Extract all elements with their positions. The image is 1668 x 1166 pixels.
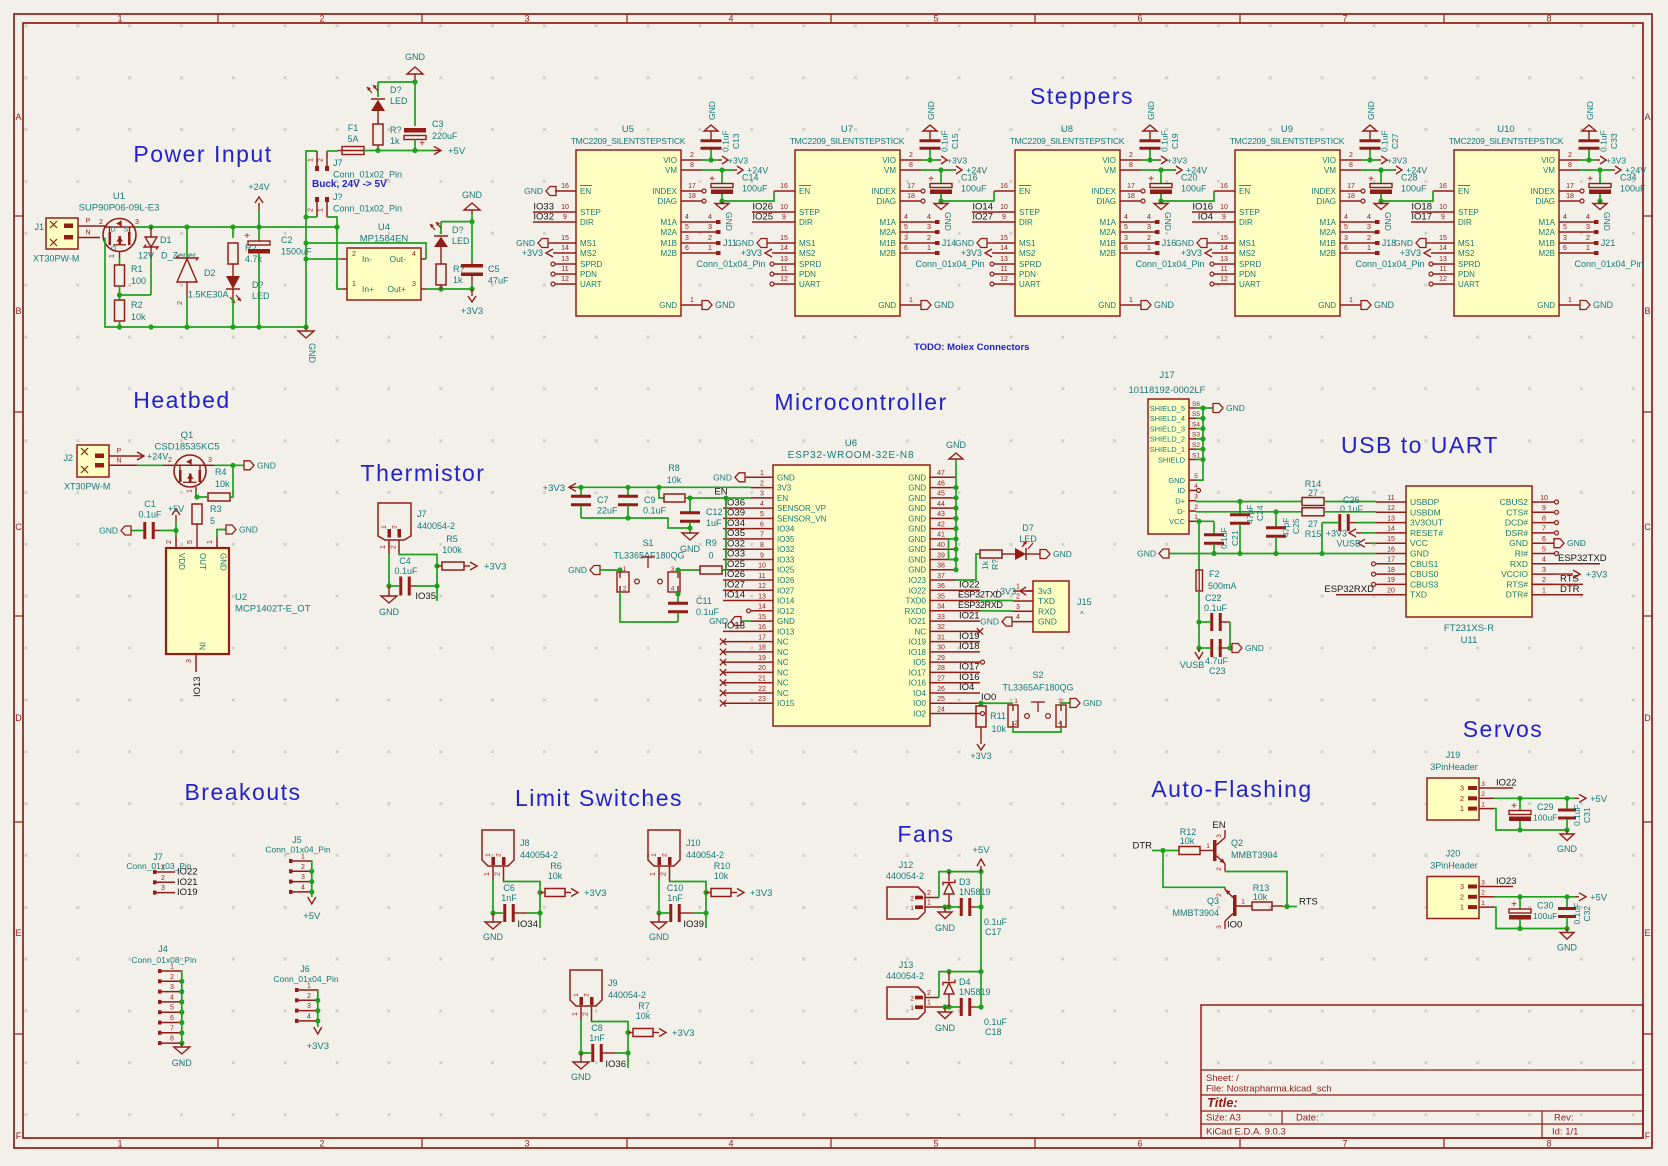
svg-text:F2: F2 [1209,569,1220,579]
svg-text:3: 3 [904,235,908,242]
svg-text:J19: J19 [1446,750,1461,760]
svg-text:P: P [117,448,122,455]
svg-text:12: 12 [758,583,766,590]
svg-text:2: 2 [584,993,591,997]
pin U10 SPRD [1433,263,1454,265]
svg-text:UART: UART [1239,280,1261,289]
svg-text:2: 2 [301,864,305,871]
svg-text:R7: R7 [638,1001,650,1011]
pin U6-32 NC [930,630,980,632]
pin U7 MS2 +3V3 [774,252,795,254]
svg-text:S2: S2 [1032,670,1043,680]
svg-text:A: A [1644,112,1650,122]
svg-text:+3V3: +3V3 [728,156,748,166]
svg-text:3: 3 [301,874,305,881]
svg-text:B: B [1644,306,1650,316]
svg-text:STEP: STEP [1239,208,1260,217]
svg-text:F1: F1 [348,123,359,133]
svg-text:6: 6 [1137,1139,1142,1149]
pin U5 MS1 GND flag [555,242,576,244]
svg-text:9: 9 [782,214,786,221]
svg-text:5: 5 [1194,473,1198,480]
svg-text:28: 28 [937,665,945,672]
svg-text:DIAG: DIAG [876,197,896,206]
ground symbol J9 [580,1053,582,1062]
svg-text:2: 2 [1216,867,1223,871]
svg-text:R10: R10 [714,861,731,871]
wires U6 GND bus right [930,476,956,478]
svg-text:0.1uF: 0.1uF [721,130,731,152]
svg-text:2: 2 [909,152,913,159]
svg-text:6: 6 [1563,245,1567,252]
svg-text:1: 1 [117,14,122,24]
wire J8 pin2 to net [503,866,505,881]
svg-text:EN: EN [799,187,810,196]
svg-text:STEP: STEP [1019,208,1040,217]
svg-text:+3V3: +3V3 [741,248,762,258]
svg-text:+3V3: +3V3 [522,248,543,258]
svg-text:3: 3 [1367,222,1371,231]
svg-text:Id: 1/1: Id: 1/1 [1552,1127,1578,1138]
svg-text:1: 1 [109,254,116,258]
svg-text:GND: GND [462,190,483,200]
svg-text:SHIELD_1: SHIELD_1 [1150,445,1185,454]
svg-text:M1B: M1B [1100,239,1116,248]
svg-text:14: 14 [1000,245,1008,252]
svg-text:1: 1 [927,1000,931,1007]
wire EN U9 from previous cap gnd [1161,191,1214,201]
svg-text:8: 8 [1129,162,1133,169]
svg-text:1: 1 [927,243,931,252]
connector J12 440054-2 fan [887,887,925,919]
svg-text:440054-2: 440054-2 [886,971,924,981]
svg-text:8: 8 [1546,1139,1551,1149]
svg-text:U9: U9 [1281,124,1293,135]
capacitor C12 1uF [689,498,691,512]
svg-text:M1B: M1B [1539,239,1555,248]
svg-text:GND: GND [1137,549,1156,559]
pin J2-1 P to +24V [109,455,137,457]
svg-text:R11: R11 [990,711,1006,721]
svg-text:A: A [15,112,21,122]
svg-text:4: 4 [307,1013,311,1020]
svg-text:33: 33 [937,614,945,621]
svg-text:U7: U7 [841,124,853,135]
svg-text:10: 10 [1540,495,1548,502]
svg-text:1: 1 [1367,243,1371,252]
power symbol VUSB down [1198,648,1200,652]
pin U10 UART [1433,283,1454,285]
wire shield bus to GND [1196,407,1213,409]
svg-text:17: 17 [907,183,915,190]
svg-text:SHIELD_2: SHIELD_2 [1150,435,1185,444]
wire +5V rail [364,150,434,152]
svg-text:1: 1 [910,1005,914,1012]
svg-text:10: 10 [1220,204,1228,211]
svg-text:4: 4 [1542,557,1546,564]
svg-text:100uF: 100uF [1401,184,1427,194]
svg-text:440054-2: 440054-2 [686,850,724,860]
svg-text:IO0: IO0 [913,699,926,708]
svg-text:Servos: Servos [1463,716,1544,742]
svg-text:TMC2209_SILENTSTEPSTICK: TMC2209_SILENTSTEPSTICK [790,136,905,146]
pin U7 INDEX [900,190,921,192]
svg-text:GND: GND [908,514,926,523]
pin U10 INDEX [1559,190,1580,192]
svg-text:1: 1 [760,470,764,477]
pin U6-3 EN label [751,497,773,499]
svg-text:3: 3 [1147,222,1151,231]
svg-text:SENSOR_VN: SENSOR_VN [777,514,827,523]
svg-text:IO32: IO32 [533,212,554,223]
ground symbol GND bottom [303,324,308,329]
svg-text:6: 6 [1124,245,1128,252]
pin U9 STEP label IO16 [1192,211,1235,213]
svg-text:13: 13 [1439,256,1447,263]
svg-text:C14: C14 [742,173,759,183]
svg-text:M1A: M1A [1100,218,1117,227]
svg-text:Microcontroller: Microcontroller [774,389,947,415]
svg-text:IO36: IO36 [605,1059,626,1070]
pin U10 EN [1433,190,1454,192]
diode D1 12V D_Zener [150,227,152,237]
svg-text:4: 4 [1016,614,1020,621]
pin U10 PDN [1433,273,1454,275]
svg-text:TXD: TXD [1038,596,1055,606]
svg-text:+5V: +5V [1590,892,1608,903]
capacitor C14 100uF [721,170,723,183]
svg-text:C28: C28 [1401,173,1418,183]
capacitor C2 1500uF [258,227,260,242]
pin U10 MS2 +3V3 [1433,252,1454,254]
pin U8 EN [994,190,1015,192]
svg-text:ESP32RXD: ESP32RXD [958,600,1003,610]
svg-text:C12: C12 [706,507,723,517]
svg-text:TMC2209_SILENTSTEPSTICK: TMC2209_SILENTSTEPSTICK [571,136,686,146]
svg-text:8: 8 [1568,162,1572,169]
svg-text:GND: GND [724,212,734,231]
svg-text:41: 41 [937,532,945,539]
svg-text:C20: C20 [1181,173,1198,183]
svg-text:100uF: 100uF [961,184,987,194]
svg-text:C10: C10 [667,883,684,893]
pin J19-3 label IO22 [1494,787,1513,789]
wire R1 bottom to D1 [120,294,152,296]
svg-text:+5V: +5V [1590,794,1608,805]
svg-text:2: 2 [1349,152,1353,159]
svg-text:IO4: IO4 [1198,212,1213,223]
svg-text:R8: R8 [668,463,680,473]
svg-text:IO13: IO13 [777,627,795,636]
svg-text:1uF: 1uF [706,518,722,528]
svg-text:GND: GND [1154,300,1175,310]
svg-text:47: 47 [937,470,945,477]
svg-text:3PinHeader: 3PinHeader [1430,762,1478,772]
svg-text:10k: 10k [215,479,230,489]
svg-text:IO34: IO34 [777,525,795,534]
pin U11-4 RXD ESP32TXD [1532,563,1600,565]
svg-text:0.1uF: 0.1uF [1340,504,1364,514]
svg-text:1: 1 [352,281,356,288]
svg-text:E: E [1644,928,1650,938]
svg-text:3: 3 [1481,879,1485,886]
svg-text:IO39: IO39 [683,919,704,930]
svg-text:2: 2 [319,1139,324,1149]
svg-text:2: 2 [166,540,173,544]
svg-text:10: 10 [561,204,569,211]
svg-text:SENSOR_VP: SENSOR_VP [777,504,826,513]
connector J1 XT30PW-M [46,218,78,249]
svg-text:7: 7 [1342,14,1347,24]
pin U8 UART [994,283,1015,285]
svg-text:PDN: PDN [580,270,597,279]
svg-text:RXD: RXD [1510,559,1528,569]
power +3V3 at J15-1 [1026,590,1033,592]
pin U7 GND flag [900,304,921,306]
resistor R2 10k [119,295,121,300]
svg-text:E: E [15,928,21,938]
svg-text:2: 2 [1194,504,1198,511]
svg-text:SHIELD_4: SHIELD_4 [1150,414,1185,423]
svg-text:8: 8 [1542,515,1546,522]
pin U9 MS1 GND flag [1214,242,1235,244]
svg-text:C22: C22 [1205,593,1222,603]
fuse F2 500mA [1198,521,1200,570]
svg-text:2: 2 [1367,233,1371,242]
svg-text:10118192-0002LF: 10118192-0002LF [1129,385,1206,396]
svg-text:2: 2 [495,872,502,876]
svg-text:IO5: IO5 [913,658,926,667]
svg-text:GND: GND [571,1072,592,1082]
power symbol +3V3 down [980,737,982,744]
pin U8 GND flag [1120,304,1141,306]
wire J8 pin1 to gnd [492,866,494,880]
svg-text:D2: D2 [204,268,216,278]
svg-text:D: D [110,227,115,234]
svg-text:10k: 10k [131,312,146,322]
svg-text:8: 8 [170,1036,174,1043]
resistor R? 1k [373,124,383,145]
svg-text:C: C [1644,522,1651,532]
svg-text:GND: GND [1509,538,1528,548]
svg-text:XT30PW-M: XT30PW-M [64,482,110,492]
svg-text:18: 18 [1387,567,1395,574]
svg-text:Title:: Title: [1207,1095,1238,1110]
svg-text:16: 16 [780,183,788,190]
svg-text:VCCIO: VCCIO [1501,569,1528,579]
svg-text:C13: C13 [731,133,741,149]
svg-text:7: 7 [760,532,764,539]
svg-text:P: P [86,218,91,225]
svg-text:5: 5 [685,224,689,231]
svg-text:2: 2 [1481,791,1485,798]
svg-text:2: 2 [177,301,184,305]
svg-text:1: 1 [909,297,913,304]
svg-text:3: 3 [161,885,165,892]
svg-text:S: S [124,227,129,234]
svg-text:GND: GND [777,617,795,626]
pin U9 VIO +3V3 [1340,159,1361,161]
svg-text:9: 9 [1542,505,1546,512]
svg-text:10k: 10k [714,871,729,881]
svg-text:8: 8 [690,162,694,169]
svg-text:D_Zener: D_Zener [161,251,196,261]
svg-text:100k: 100k [442,545,462,555]
pin J19-2 +5V rail [1494,797,1575,799]
wire Q1 gate [195,487,197,492]
svg-text:VIO: VIO [882,156,896,165]
svg-text:1nF: 1nF [501,893,517,903]
svg-text:3: 3 [685,235,689,242]
svg-text:J16: J16 [1162,238,1177,248]
svg-text:G: G [111,245,118,250]
svg-text:J14: J14 [942,238,957,248]
pin U6-15 GND flag [751,620,773,622]
svg-text:GND: GND [934,300,955,310]
svg-text:15: 15 [780,235,788,242]
svg-text:DIR: DIR [1458,218,1472,227]
svg-text:Q1: Q1 [181,430,194,441]
wire +5V vertical fans [980,872,982,1007]
svg-text:18: 18 [1347,193,1355,200]
wire gnd jog pins 41-39 [949,539,957,560]
svg-text:Out+: Out+ [387,284,406,294]
pin U6-1 GND flag [745,476,773,478]
wire EN U7 from previous cap gnd [722,191,774,201]
svg-text:GND: GND [99,526,118,536]
svg-text:GND: GND [1602,212,1612,231]
svg-text:3: 3 [1194,494,1198,501]
svg-text:GND: GND [1175,238,1194,248]
svg-text:2: 2 [168,457,172,464]
svg-text:PDN: PDN [1239,270,1256,279]
svg-text:2: 2 [690,152,694,159]
svg-text:S1: S1 [1192,452,1200,459]
svg-text:S2: S2 [1192,442,1200,449]
svg-text:STEP: STEP [1458,208,1479,217]
svg-text:11: 11 [1220,266,1227,273]
svg-text:Date:: Date: [1296,1113,1319,1124]
svg-text:C16: C16 [961,173,978,183]
pin U7 MS1 GND flag [774,242,795,244]
svg-text:15: 15 [1000,235,1008,242]
svg-text:U5: U5 [622,124,634,135]
svg-text:27: 27 [937,676,945,683]
svg-text:15: 15 [561,235,569,242]
svg-text:Auto-Flashing: Auto-Flashing [1151,776,1312,802]
svg-text:VIO: VIO [663,156,677,165]
svg-text:R4: R4 [215,467,227,477]
svg-text:1: 1 [381,525,388,529]
svg-text:SPRD: SPRD [799,260,821,269]
svg-text:D7: D7 [1022,523,1034,533]
svg-text:MS1: MS1 [580,239,597,248]
pin U7 EN [774,190,795,192]
svg-text:U6: U6 [845,438,857,449]
svg-text:LED: LED [452,236,470,246]
svg-text:+3V3: +3V3 [307,1041,329,1052]
svg-text:4: 4 [1367,212,1371,221]
capacitor C17 0.1uF [960,898,963,916]
svg-text:+3V3: +3V3 [484,562,506,573]
svg-text:Steppers: Steppers [1030,83,1134,109]
svg-text:UART: UART [1019,280,1041,289]
wire Q1 drain to GND flag [214,464,244,466]
svg-text:^: ^ [1080,610,1084,619]
svg-text:VM: VM [665,166,677,175]
svg-text:C31: C31 [1582,807,1592,823]
pin U8 DIAG [1120,200,1141,202]
svg-text:IO33: IO33 [777,555,795,564]
svg-text:U8: U8 [1061,124,1073,135]
svg-text:14: 14 [561,245,569,252]
svg-text:IO19: IO19 [177,887,198,898]
svg-text:3: 3 [412,281,416,288]
svg-text:D?: D? [452,225,464,235]
svg-text:IO32: IO32 [777,545,795,554]
svg-text:4: 4 [760,501,764,508]
svg-text:12: 12 [1220,276,1228,283]
wire Q2 emitter to R13 [1225,872,1287,907]
svg-text:6: 6 [904,245,908,252]
svg-text:MMBT3904: MMBT3904 [1172,908,1219,918]
svg-text:R1: R1 [131,264,143,274]
svg-text:GND: GND [935,923,956,933]
svg-text:M1A: M1A [1320,218,1337,227]
svg-text:GND: GND [483,932,504,942]
svg-text:5: 5 [1344,224,1348,231]
svg-text:GND: GND [878,301,896,310]
svg-text:29: 29 [937,655,945,662]
power GND symbol above bus [955,460,957,477]
svg-text:+3V3: +3V3 [970,751,991,761]
svg-text:GND: GND [172,1058,193,1068]
ground symbol J19 [1564,827,1569,832]
ground symbol below C12 [682,533,698,540]
svg-text:MS1: MS1 [1239,239,1256,248]
svg-text:GND: GND [908,555,926,564]
svg-text:10k: 10k [636,1011,651,1021]
svg-text:GND: GND [1410,549,1429,559]
pin U8 PDN [994,273,1015,275]
svg-text:CBUS0: CBUS0 [1410,569,1439,579]
svg-text:C9: C9 [644,495,656,505]
svg-text:Q3: Q3 [1207,896,1219,906]
svg-text:14: 14 [758,604,766,611]
svg-text:4: 4 [1124,214,1128,221]
svg-text:SHIELD_5: SHIELD_5 [1150,404,1185,413]
svg-text:16: 16 [1439,183,1447,190]
svg-text:S3: S3 [1192,432,1200,439]
svg-text:1: 1 [651,853,658,857]
svg-text:M2B: M2B [661,249,677,258]
wire J10 pin1 to gnd [658,866,660,880]
svg-text:D?: D? [390,85,402,95]
pin U9 DIAG [1340,200,1361,202]
pin U8 VM +24V [1120,169,1141,171]
svg-text:Q2: Q2 [1231,838,1243,848]
label IO35 [436,586,438,601]
wire main +24V rail [135,226,337,228]
svg-text:C2: C2 [281,235,293,245]
pin J20-2 +5V rail [1494,896,1575,898]
svg-text:1: 1 [573,993,580,997]
pin J1-2 N [78,237,100,239]
svg-text:USBDP: USBDP [1410,497,1440,507]
svg-text:C18: C18 [985,1027,1002,1037]
svg-text:1: 1 [1129,297,1133,304]
svg-text:1: 1 [708,243,712,252]
